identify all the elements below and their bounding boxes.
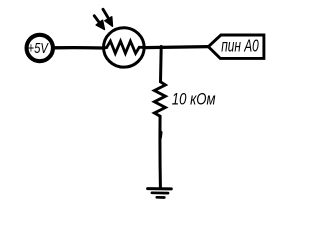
svg-text:+5V: +5V — [28, 40, 50, 57]
ground — [148, 189, 172, 198]
wire from photoresistor to pin tag (node A0) — [145, 47, 209, 48]
net label пин A0 — [208, 35, 264, 58]
wire from +5V to photoresistor — [54, 46, 102, 50]
svg-text:пин A0: пин A0 — [221, 36, 259, 56]
svg-text:10 кОм: 10 кОм — [172, 90, 216, 109]
wire from resistor to ground — [158, 116, 161, 187]
wire joint overlap — [158, 133, 162, 138]
photoresistor R1 (LDR) — [94, 9, 145, 67]
power +5V — [27, 35, 53, 61]
light arrow 1 — [94, 16, 104, 30]
light arrow 2 — [103, 9, 113, 26]
resistor R2 — [154, 82, 165, 116]
wire down from junction to resistor — [159, 47, 163, 82]
